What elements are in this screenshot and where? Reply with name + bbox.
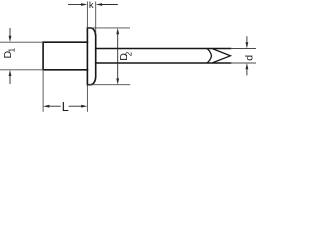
rivet body (tube) outline	[43, 42, 87, 70]
d extension line top	[231, 48, 256, 50]
mandrel tip cone	[213, 49, 231, 63]
L extension line right	[86, 86, 88, 112]
mandrel tip transition arcs	[207, 49, 211, 63]
k dimension line right with arrow	[96, 3, 118, 6]
D2 dimension line with arrows	[116, 28, 119, 85]
D1 dimension line top with arrow	[9, 28, 12, 42]
svg-text:k: k	[89, 0, 94, 11]
d dimension line bottom with arrow	[246, 63, 249, 75]
rivet flange (dome head) outline	[87, 28, 95, 85]
D1 dimension line bottom with arrow	[9, 70, 12, 84]
D1 extension line top	[0, 41, 43, 43]
L extension line left	[42, 71, 44, 112]
L dimension line left with arrow	[43, 105, 61, 108]
svg-text:d: d	[243, 55, 255, 61]
D2 extension line bottom	[87, 84, 130, 86]
d extension line bottom	[231, 62, 256, 64]
D1 extension line bottom	[0, 69, 43, 71]
svg-text:L: L	[62, 100, 69, 114]
k extension line left	[86, 2, 88, 28]
L dimension line right with arrow	[69, 105, 88, 108]
k dimension line left with arrow	[68, 3, 87, 6]
k extension line right	[95, 2, 97, 34]
mandrel stem outline	[96, 49, 231, 64]
D2 extension line top	[87, 27, 130, 29]
d dimension line top with arrow	[246, 36, 249, 48]
